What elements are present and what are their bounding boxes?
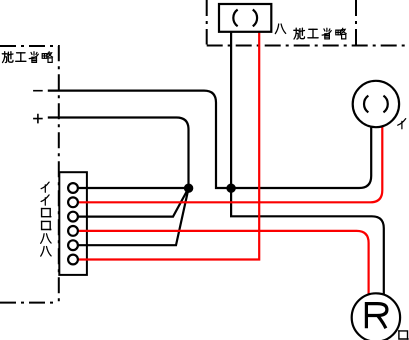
- outlet ハ inner symbol ( ): [233, 10, 237, 27]
- wire: source plus to node N1: [48, 118, 189, 189]
- lamp R (ロ) circle: [352, 293, 400, 340]
- wire: source minus to node N2: [48, 91, 231, 188]
- junction node N1: [184, 184, 193, 193]
- junction node N2: [226, 184, 235, 193]
- wire: terminal 5 (switch ハ common) to node N1: [78, 188, 188, 245]
- ceiling outlet ハ (square type) box: [219, 4, 271, 32]
- label plus: [33, 114, 43, 124]
- wire: terminal 2 (red) to lamp receptacle イ: [78, 126, 382, 202]
- lamp R letter: [366, 304, 387, 329]
- lamp receptacle イ (round ceiling outlet): [353, 81, 399, 127]
- wire: node N2 down and right to lamp R (black): [231, 188, 384, 295]
- label 施工省略 left: [2, 52, 52, 63]
- terminal 4 circle: [68, 226, 78, 236]
- label minus: [33, 90, 43, 92]
- boundary dash-dot top box bottom edge: [207, 45, 409, 47]
- wire: terminal 3 (switch ロ common) to node N1: [78, 188, 188, 217]
- wire: terminal 6 (red) up to outlet ハ: [78, 32, 259, 260]
- terminal 5 circle: [68, 240, 78, 250]
- terminal 3 circle: [68, 212, 78, 222]
- boundary dash-dot top box left edge: [206, 0, 208, 45]
- terminal block TB1 (switch box): [59, 172, 87, 275]
- boundary dash-dot box left (施工省略 region): [0, 46, 59, 303]
- label ロ at lamp R: [399, 331, 408, 339]
- terminal 6 circle: [68, 255, 78, 265]
- terminal 1 circle: [68, 183, 78, 193]
- label イ at receptacle: [398, 119, 406, 129]
- boundary dash-dot bottom left: [0, 302, 57, 304]
- wire: terminal 4 (red) to lamp R: [78, 231, 368, 295]
- label 施工省略 top: [294, 28, 346, 39]
- wire: node N2 to lamp receptacle イ (black): [231, 127, 371, 188]
- terminal 2 circle: [68, 197, 78, 207]
- terminal labels イイロロハハ: [41, 182, 51, 256]
- label ハ at outlet: [275, 24, 285, 34]
- wire: outlet ハ black down to node N2: [230, 32, 232, 188]
- boundary dash-dot top box right edge: [355, 0, 357, 45]
- wire: terminal 1 (switch イ common) to node N1: [78, 187, 188, 189]
